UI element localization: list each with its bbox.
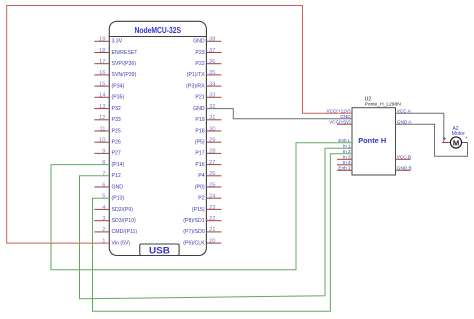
svg-text:CMD/(P11): CMD/(P11)	[112, 229, 138, 235]
svg-text:30: 30	[209, 126, 215, 132]
svg-text:Enb L: Enb L	[338, 138, 351, 143]
svg-text:Vin (5V): Vin (5V)	[112, 240, 131, 246]
svg-text:33: 33	[209, 93, 215, 99]
svg-text:USB: USB	[149, 245, 171, 255]
svg-text:GND: GND	[340, 114, 351, 119]
svg-text:In 4: In 4	[343, 160, 351, 165]
svg-text:35: 35	[209, 70, 215, 76]
svg-text:36: 36	[209, 59, 215, 65]
svg-text:VCC B: VCC B	[397, 154, 411, 159]
svg-text:19: 19	[99, 37, 105, 43]
svg-text:NodeMCU-32S: NodeMCU-32S	[135, 26, 182, 35]
svg-text:P23: P23	[195, 50, 204, 56]
svg-text:P19: P19	[195, 117, 204, 123]
svg-text:P16: P16	[195, 162, 204, 168]
svg-text:(P7)/SD0: (P7)/SD0	[183, 229, 204, 235]
svg-text:P32: P32	[112, 106, 121, 112]
svg-text:SVN/(P39): SVN/(P39)	[112, 72, 137, 78]
svg-text:3.3V: 3.3V	[112, 39, 123, 45]
svg-text:12: 12	[99, 115, 105, 121]
svg-text:SD2/(P9): SD2/(P9)	[112, 207, 134, 213]
svg-text:29: 29	[209, 138, 215, 144]
svg-text:P21: P21	[195, 95, 204, 101]
svg-text:In 1: In 1	[343, 143, 351, 148]
svg-text:Ponte_H_L298N: Ponte_H_L298N	[365, 102, 402, 108]
svg-text:(P35): (P35)	[112, 95, 125, 101]
svg-text:EN/RESET: EN/RESET	[112, 50, 139, 56]
svg-text:In 3: In 3	[343, 154, 351, 159]
svg-text:(P34): (P34)	[112, 83, 125, 89]
svg-text:Motor: Motor	[452, 131, 466, 137]
svg-text:P27: P27	[112, 151, 121, 157]
svg-text:13: 13	[99, 104, 105, 110]
svg-text:P18: P18	[195, 128, 204, 134]
svg-text:21: 21	[209, 227, 215, 233]
svg-text:34: 34	[209, 81, 216, 87]
svg-text:GND: GND	[193, 106, 205, 112]
svg-text:22: 22	[209, 216, 215, 222]
svg-text:(P3)/RX: (P3)/RX	[186, 83, 205, 89]
svg-text:Enb 2: Enb 2	[338, 165, 351, 170]
svg-text:25: 25	[209, 182, 215, 188]
svg-text:(P15): (P15)	[192, 207, 205, 213]
svg-text:28: 28	[209, 149, 215, 155]
svg-text:15: 15	[99, 81, 105, 87]
svg-text:38: 38	[209, 37, 215, 43]
svg-text:In 2: In 2	[343, 149, 351, 154]
svg-text:(P1)/TX: (P1)/TX	[187, 72, 205, 78]
svg-text:VCC(+12V): VCC(+12V)	[326, 108, 351, 113]
svg-text:(P5): (P5)	[195, 140, 205, 146]
svg-text:GND: GND	[112, 184, 124, 190]
svg-text:11: 11	[99, 126, 105, 132]
svg-text:P22: P22	[195, 61, 204, 67]
svg-text:3: 3	[102, 216, 105, 222]
svg-text:31: 31	[209, 115, 215, 121]
svg-text:24: 24	[209, 194, 216, 200]
svg-text:16: 16	[99, 70, 105, 76]
svg-text:U2: U2	[365, 96, 372, 102]
svg-text:P2: P2	[198, 196, 204, 202]
svg-text:27: 27	[209, 160, 215, 166]
svg-text:(P6)/CLK: (P6)/CLK	[183, 240, 205, 246]
svg-text:20: 20	[209, 238, 215, 244]
svg-text:10: 10	[99, 138, 105, 144]
svg-text:37: 37	[209, 48, 215, 54]
svg-text:P4: P4	[198, 173, 204, 179]
svg-text:SVP/(P36): SVP/(P36)	[112, 61, 137, 67]
svg-text:26: 26	[209, 171, 215, 177]
svg-text:2: 2	[102, 227, 105, 233]
svg-text:P17: P17	[195, 151, 204, 157]
svg-text:Ponte H: Ponte H	[358, 136, 386, 145]
svg-text:6: 6	[102, 182, 105, 188]
svg-text:(P8)/SD1: (P8)/SD1	[183, 218, 204, 224]
svg-text:GND A: GND A	[397, 119, 412, 124]
svg-text:GND: GND	[193, 39, 205, 45]
svg-text:18: 18	[99, 48, 105, 54]
svg-text:SD3/(P10): SD3/(P10)	[112, 218, 136, 224]
svg-text:14: 14	[99, 93, 106, 99]
svg-text:9: 9	[102, 149, 105, 155]
svg-text:P26: P26	[112, 140, 121, 146]
svg-text:GND B: GND B	[397, 165, 412, 170]
svg-text:(P0): (P0)	[195, 184, 205, 190]
svg-text:P25: P25	[112, 128, 121, 134]
svg-text:VCC(+5V): VCC(+5V)	[329, 119, 351, 124]
svg-text:(P13): (P13)	[112, 196, 125, 202]
svg-text:23: 23	[209, 205, 215, 211]
svg-text:P12: P12	[112, 173, 121, 179]
svg-text:+: +	[443, 137, 447, 143]
svg-text:(P14): (P14)	[112, 162, 125, 168]
svg-text:M: M	[453, 138, 459, 147]
svg-text:+: +	[465, 135, 468, 140]
svg-text:17: 17	[99, 59, 105, 65]
svg-text:P33: P33	[112, 117, 121, 123]
svg-text:VCC A: VCC A	[397, 108, 412, 113]
